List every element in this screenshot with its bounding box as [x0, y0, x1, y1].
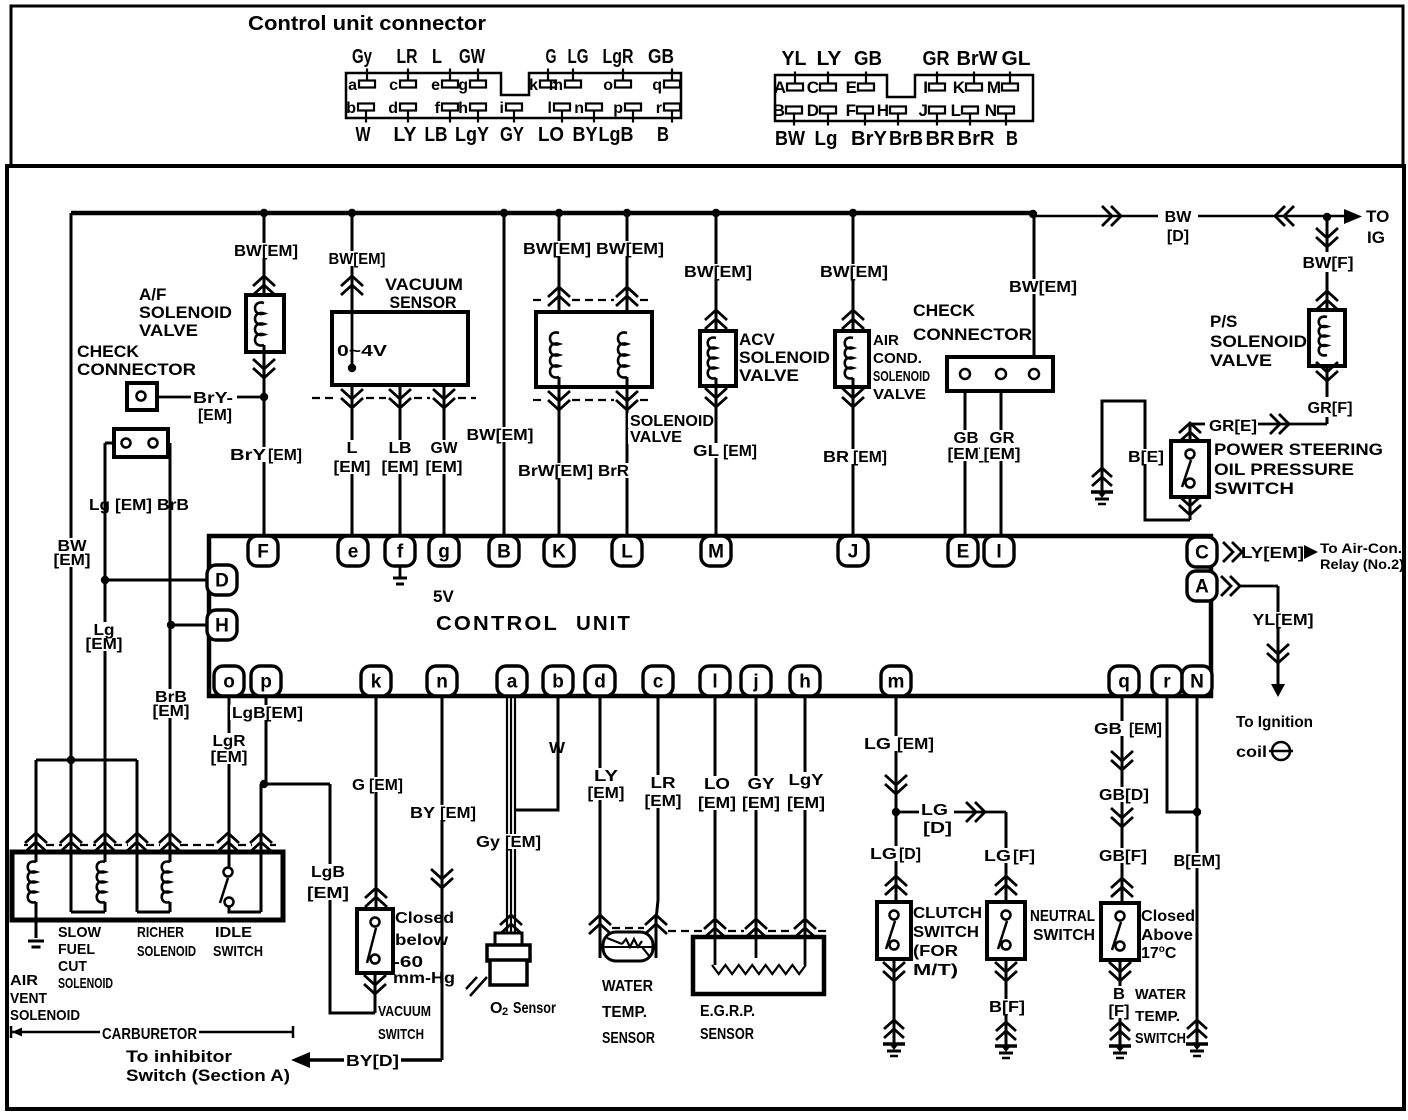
svg-text:SOLENOID: SOLENOID	[139, 303, 232, 322]
pin N connector right	[998, 107, 1014, 114]
pin J control unit	[838, 536, 868, 566]
svg-text:AIR: AIR	[873, 332, 899, 349]
svg-text:RICHER: RICHER	[137, 924, 184, 941]
wire LO[EM] from pin l	[714, 696, 717, 937]
wire BR[EM] to pin J	[852, 378, 855, 537]
ground clutch switch	[884, 1020, 904, 1038]
pin N control unit	[1182, 666, 1212, 696]
svg-text:h: h	[799, 672, 811, 693]
svg-text:E.G.R.P.: E.G.R.P.	[700, 1003, 755, 1020]
svg-text:LB: LB	[389, 440, 412, 457]
wire GW[EM] to pin g	[443, 385, 446, 537]
svg-text:[EM]: [EM]	[723, 443, 757, 460]
EGRP sensor box	[693, 937, 824, 994]
svg-text:F: F	[846, 101, 856, 120]
svg-text:[EM]: [EM]	[853, 449, 887, 466]
svg-text:j: j	[752, 672, 758, 693]
svg-text:LY: LY	[394, 124, 418, 146]
svg-text:r: r	[1163, 672, 1171, 693]
svg-text:BrB: BrB	[889, 128, 923, 150]
wire GY[EM] from pin j	[755, 696, 758, 937]
connector dashes above solenoid valve	[533, 299, 546, 301]
wire BW[EM] to solenoid valve L side	[626, 213, 629, 333]
switch clutch	[885, 876, 907, 895]
svg-text:VACUUM: VACUUM	[378, 1003, 431, 1020]
svg-text:VALVE: VALVE	[630, 429, 682, 446]
connector EM left outline	[346, 73, 681, 118]
svg-text:[EM]: [EM]	[1129, 721, 1162, 738]
svg-text:o: o	[603, 77, 613, 94]
svg-text:BW[EM]: BW[EM]	[329, 251, 386, 268]
solenoid richer coil	[162, 862, 170, 903]
wire L[EM] to pin e	[351, 385, 354, 537]
solenoid valve vacuum control box	[536, 312, 652, 387]
svg-text:SENSOR: SENSOR	[602, 1030, 655, 1047]
svg-text:GR[F]: GR[F]	[1308, 400, 1353, 417]
svg-text:BW[EM]: BW[EM]	[684, 264, 752, 281]
connector dashes carburetor	[24, 844, 28, 846]
wire GB[EM] from pin q	[1121, 696, 1124, 903]
svg-text:VALVE: VALVE	[739, 366, 799, 385]
svg-text:BW: BW	[1165, 209, 1193, 226]
wire LY[EM] from pin d	[599, 696, 602, 934]
svg-text:[EM]: [EM]	[742, 795, 780, 812]
svg-text:I: I	[996, 542, 1001, 563]
ground B[E]	[1092, 468, 1112, 486]
svg-text:p: p	[613, 100, 623, 117]
svg-text:LgB[EM]: LgB[EM]	[232, 705, 303, 722]
svg-text:TEMP.: TEMP.	[1135, 1008, 1180, 1025]
svg-text:L: L	[432, 46, 442, 68]
svg-text:VALVE: VALVE	[1210, 351, 1272, 370]
pin E connector right	[858, 84, 874, 91]
svg-text:GB: GB	[648, 46, 674, 68]
svg-text:LY: LY	[817, 48, 843, 70]
pin a control unit	[497, 666, 527, 696]
wire BW[EM] to vacuum sensor	[351, 213, 354, 312]
svg-text:D: D	[807, 101, 819, 120]
wire LY[EM] to air con relay	[1223, 542, 1242, 562]
svg-text:C: C	[1195, 543, 1209, 564]
wire Gy[EM] O2 sensor cable	[506, 696, 508, 933]
svg-text:m: m	[549, 77, 563, 94]
pin m connector EM	[565, 81, 581, 88]
svg-text:k: k	[371, 672, 382, 693]
svg-text:L: L	[621, 542, 633, 563]
svg-text:SOLENOID: SOLENOID	[873, 368, 930, 385]
svg-text:[EM]: [EM]	[588, 785, 625, 802]
node B[EM] junction	[1193, 808, 1201, 816]
svg-text:B: B	[773, 101, 785, 120]
svg-text:LG: LG	[864, 736, 891, 753]
svg-text:AIR: AIR	[10, 972, 38, 989]
pin l control unit	[700, 666, 730, 696]
svg-text:SOLENOID: SOLENOID	[630, 413, 714, 430]
connector F/D right outline	[775, 75, 1033, 121]
pin h control unit	[790, 666, 820, 696]
wire BrR to pin L	[626, 377, 629, 537]
svg-text:c: c	[653, 672, 664, 693]
svg-text:FUEL: FUEL	[58, 941, 95, 958]
wire BW[EM] to pin B	[503, 213, 506, 537]
pin o control unit	[214, 666, 244, 696]
label LG [D]	[868, 846, 922, 861]
svg-text:LG: LG	[568, 46, 589, 68]
svg-text:LgY: LgY	[789, 772, 824, 789]
wire BY[D]	[310, 1058, 442, 1062]
wire BrW[EM] to pin K	[558, 377, 561, 537]
svg-text:B[EM]: B[EM]	[1174, 853, 1221, 870]
svg-text:SLOW: SLOW	[58, 924, 102, 941]
svg-text:P/S: P/S	[1210, 312, 1237, 331]
pin I connector right	[929, 84, 945, 91]
svg-text:B: B	[657, 124, 669, 146]
svg-text:LB: LB	[425, 124, 448, 146]
svg-text:SENSOR: SENSOR	[390, 293, 457, 312]
wire YL[EM] to ignition coil	[1221, 576, 1240, 596]
svg-text:WATER: WATER	[1135, 986, 1186, 1003]
connector dashes under vacuum sensor	[312, 397, 336, 399]
svg-text:o: o	[223, 672, 235, 693]
svg-text:[EM]: [EM]	[698, 795, 736, 812]
svg-text:D: D	[215, 571, 229, 592]
svg-text:LgY: LgY	[455, 124, 490, 146]
svg-text:M: M	[987, 78, 1001, 97]
wire GB[EM] to pin E	[964, 391, 967, 537]
svg-text:LO: LO	[704, 776, 730, 793]
svg-text:SWITCH: SWITCH	[1135, 1030, 1186, 1047]
svg-text:BW[EM]: BW[EM]	[234, 243, 298, 260]
svg-text:[EM]: [EM]	[984, 446, 1021, 463]
pin F control unit	[248, 536, 278, 566]
svg-text:B[F]: B[F]	[989, 999, 1025, 1016]
wire LgR[EM] to idle switch	[228, 696, 231, 867]
pin k control unit	[361, 666, 391, 696]
svg-text:IDLE: IDLE	[215, 924, 252, 941]
wire BW[EM] to air cond valve	[852, 213, 855, 338]
O2 sensor body	[495, 933, 522, 946]
wire BY[EM] from pin n	[441, 696, 444, 1060]
svg-text:g: g	[438, 542, 450, 563]
svg-text:[EM]: [EM]	[645, 793, 682, 810]
svg-text:LR: LR	[651, 775, 677, 792]
svg-text:LgR: LgR	[603, 46, 634, 68]
pin f connector EM	[442, 104, 458, 111]
wire to pin H	[171, 624, 207, 627]
svg-text:LR: LR	[397, 46, 418, 68]
pin q control unit	[1109, 666, 1139, 696]
wire LG[D] to neutral switch	[896, 811, 919, 814]
wire BrB[EM]	[168, 443, 170, 862]
wire GR[F]	[1326, 366, 1329, 397]
svg-text:COND.: COND.	[873, 350, 922, 367]
pin A control unit	[1187, 571, 1217, 601]
svg-text:h: h	[458, 100, 468, 117]
pin E control unit	[948, 536, 978, 566]
svg-text:BW[F]: BW[F]	[1303, 255, 1354, 272]
svg-text:BW[EM]: BW[EM]	[523, 241, 591, 258]
svg-text:[EM]: [EM]	[115, 497, 152, 514]
pin H connector right	[890, 107, 906, 114]
svg-text:BR: BR	[823, 449, 850, 466]
wire G[EM] to vacuum switch	[375, 696, 378, 909]
svg-text:Above: Above	[1141, 927, 1193, 944]
svg-text:GB: GB	[1094, 721, 1122, 738]
wire LR[EM] from pin c	[656, 696, 658, 934]
ground air vent	[28, 941, 44, 947]
check connector 1-pin	[127, 383, 157, 410]
svg-text:WATER: WATER	[602, 978, 653, 995]
svg-text:[EM]: [EM]	[426, 459, 463, 476]
pin K control unit	[544, 536, 574, 566]
pin b control unit	[543, 666, 573, 696]
svg-text:SOLENOID: SOLENOID	[1210, 332, 1307, 351]
svg-text:BrB: BrB	[157, 497, 189, 514]
svg-text:BrR: BrR	[958, 128, 996, 150]
pin M control unit	[701, 536, 731, 566]
svg-text:CHECK: CHECK	[77, 342, 140, 361]
svg-text:n: n	[574, 100, 584, 117]
svg-text:H: H	[877, 101, 889, 120]
svg-text:l: l	[712, 672, 717, 693]
svg-text:SENSOR: SENSOR	[700, 1026, 754, 1043]
svg-text:To Air-Con.: To Air-Con.	[1320, 540, 1402, 556]
label BW [EM] left	[50, 538, 93, 567]
check connector 3-pin	[947, 357, 1053, 391]
pin B control unit	[489, 536, 519, 566]
svg-text:UNIT: UNIT	[576, 613, 632, 635]
svg-text:r: r	[656, 100, 662, 117]
svg-text:[EM]: [EM]	[440, 805, 476, 822]
wire coil3 return	[137, 911, 170, 914]
svg-text:[EM]: [EM]	[382, 459, 419, 476]
pin I control unit	[984, 536, 1014, 566]
svg-text:CONNECTOR: CONNECTOR	[77, 360, 196, 379]
svg-text:[EM]: [EM]	[948, 446, 985, 463]
wire GL[EM] to pin M	[715, 378, 718, 537]
connector chevrons carburetor	[25, 833, 47, 852]
svg-text:BY: BY	[410, 805, 435, 822]
svg-text:Gy: Gy	[476, 834, 500, 851]
node LG junction	[892, 808, 900, 816]
svg-text:[EM]: [EM]	[307, 885, 349, 902]
solenoid valve A/F	[246, 295, 284, 352]
svg-text:B: B	[1113, 986, 1125, 1003]
svg-text:Closed: Closed	[1141, 908, 1195, 925]
svg-text:CONNECTOR: CONNECTOR	[913, 325, 1032, 344]
svg-text:C: C	[807, 78, 819, 97]
node bus junctions	[260, 209, 268, 217]
svg-text:I: I	[923, 78, 928, 97]
pin a connector EM	[359, 81, 375, 88]
svg-text:CLUTCH: CLUTCH	[913, 905, 982, 922]
switch neutral	[982, 848, 1035, 863]
ground signal under pin f	[399, 566, 402, 578]
svg-text:BY: BY	[573, 124, 599, 146]
wire BW[D] to IG	[1033, 215, 1158, 218]
svg-text:GW: GW	[459, 46, 485, 68]
svg-text:e: e	[431, 77, 440, 94]
svg-text:q: q	[652, 77, 662, 94]
svg-text:To inhibitor: To inhibitor	[126, 1047, 232, 1066]
svg-text:GB: GB	[854, 48, 882, 70]
svg-text:B: B	[1006, 128, 1018, 150]
svg-text:[D]: [D]	[1167, 228, 1189, 245]
svg-text:LG: LG	[984, 848, 1011, 865]
svg-text:M: M	[708, 542, 724, 563]
svg-text:Lg: Lg	[815, 128, 838, 150]
svg-text:A: A	[1195, 577, 1209, 598]
wire LG[EM] from pin m	[895, 696, 898, 902]
vacuum sensor box	[332, 312, 468, 385]
svg-text:mm-Hg: mm-Hg	[393, 970, 455, 987]
svg-text:b: b	[346, 100, 356, 117]
svg-text:Switch (Section A): Switch (Section A)	[126, 1066, 290, 1085]
pin q connector EM	[664, 81, 680, 88]
svg-text:SWITCH: SWITCH	[913, 924, 979, 941]
svg-text:a: a	[507, 672, 518, 693]
pin L control unit	[612, 536, 642, 566]
wire Lg[EM]	[105, 443, 114, 862]
svg-text:SWITCH: SWITCH	[1214, 479, 1294, 498]
svg-text:(FOR: (FOR	[913, 943, 959, 960]
svg-text:GR[E]: GR[E]	[1209, 418, 1257, 435]
svg-text:[F]: [F]	[1109, 1003, 1130, 1020]
wire check connector to bus	[1033, 215, 1036, 357]
svg-text:G: G	[546, 46, 557, 68]
wire GR[E]	[1190, 423, 1205, 426]
control unit box	[209, 536, 1211, 696]
EGRP resistor	[714, 937, 717, 965]
pin i connector EM	[506, 104, 522, 111]
pin g connector EM	[470, 81, 486, 88]
svg-text:GR: GR	[923, 48, 951, 70]
svg-text:LgR: LgR	[213, 733, 246, 750]
svg-text:BrY: BrY	[851, 128, 888, 150]
label BrB [EM] mid	[150, 689, 193, 718]
svg-text:[EM]: [EM]	[334, 459, 371, 476]
pin p connector EM	[625, 104, 641, 111]
check connector 2-pin	[114, 429, 168, 457]
svg-text:f: f	[397, 542, 404, 563]
svg-text:VALVE: VALVE	[139, 321, 198, 340]
svg-text:coil: coil	[1236, 744, 1267, 761]
svg-text:O: O	[490, 1000, 502, 1017]
pin C connector right	[820, 84, 836, 91]
svg-text:LgB: LgB	[311, 864, 345, 881]
svg-text:VENT: VENT	[10, 990, 47, 1007]
label Lg [EM] mid	[82, 622, 125, 651]
svg-text:k: k	[529, 77, 538, 94]
svg-text:SOLENOID: SOLENOID	[137, 943, 196, 960]
pin L connector right	[962, 107, 978, 114]
pin H control unit	[207, 610, 237, 640]
svg-text:VACUUM: VACUUM	[385, 275, 463, 294]
svg-text:Gy: Gy	[352, 46, 373, 68]
pin r control unit	[1152, 666, 1182, 696]
wire to pin D	[105, 579, 207, 582]
svg-text:BY[D]: BY[D]	[346, 1053, 399, 1070]
svg-text:[EM]: [EM]	[787, 795, 825, 812]
solenoid slow fuel cut coil	[97, 862, 105, 903]
svg-text:CARBURETOR: CARBURETOR	[102, 1026, 197, 1043]
ground B[EM]	[1187, 1020, 1207, 1038]
svg-text:BR: BR	[926, 128, 956, 150]
svg-text:[EM]: [EM]	[86, 636, 123, 653]
svg-text:K: K	[953, 78, 966, 97]
svg-text:H: H	[215, 616, 229, 637]
svg-text:K: K	[552, 542, 566, 563]
pin d control unit	[585, 666, 615, 696]
solenoid valve P/S	[1309, 310, 1345, 366]
svg-text:YL[EM]: YL[EM]	[1253, 612, 1314, 629]
solenoid air vent coil	[28, 862, 36, 903]
node LgB junction	[260, 780, 268, 788]
svg-text:TEMP.: TEMP.	[602, 1004, 647, 1021]
svg-text:5V: 5V	[433, 587, 454, 606]
svg-text:LG: LG	[921, 802, 948, 819]
node BrY junction	[260, 393, 268, 401]
pin l connector EM	[554, 104, 570, 111]
svg-text:GY: GY	[500, 124, 525, 146]
solenoid valve ACV	[700, 331, 736, 386]
svg-text:BrW[EM]: BrW[EM]	[518, 463, 593, 480]
carburetor box	[12, 852, 283, 920]
svg-text:J: J	[919, 101, 928, 120]
svg-text:BW[EM]: BW[EM]	[596, 241, 664, 258]
pin c control unit	[643, 666, 673, 696]
pin g control unit	[429, 536, 459, 566]
svg-text:E: E	[957, 542, 970, 563]
svg-text:BrR: BrR	[598, 463, 629, 480]
wire LgB to vacuum switch	[330, 784, 375, 1013]
svg-text:SOLENOID: SOLENOID	[58, 975, 113, 992]
svg-text:NEUTRAL: NEUTRAL	[1030, 908, 1095, 925]
svg-text:ACV: ACV	[739, 330, 776, 349]
svg-text:M/T): M/T)	[913, 962, 958, 979]
pin C control unit	[1187, 537, 1217, 567]
pin D connector right	[820, 107, 836, 114]
svg-text:To Ignition: To Ignition	[1236, 714, 1313, 731]
svg-text:-60: -60	[393, 954, 423, 971]
svg-text:GB[F]: GB[F]	[1099, 848, 1147, 865]
svg-text:F: F	[257, 542, 269, 563]
svg-text:OIL PRESSURE: OIL PRESSURE	[1214, 460, 1354, 479]
dimension line CARBURETOR	[11, 1026, 293, 1038]
svg-text:d: d	[388, 100, 398, 117]
svg-text:GY: GY	[748, 776, 775, 793]
wire BW[EM] to solenoid valve K side	[558, 213, 561, 333]
wire BrY-[EM]	[157, 396, 191, 399]
svg-text:d: d	[594, 672, 606, 693]
node BW[F] junction	[1323, 213, 1331, 221]
svg-text:Lg: Lg	[89, 497, 110, 514]
svg-text:POWER STEERING: POWER STEERING	[1214, 440, 1383, 459]
svg-text:[EM]: [EM]	[198, 407, 232, 424]
pin k connector EM	[540, 81, 556, 88]
svg-text:Relay (No.2): Relay (No.2)	[1320, 556, 1404, 572]
svg-text:Sensor: Sensor	[513, 1000, 556, 1017]
svg-text:[EM]: [EM]	[268, 447, 302, 464]
svg-text:W: W	[549, 740, 566, 757]
pin m control unit	[881, 666, 911, 696]
svg-text:BW[EM]: BW[EM]	[820, 264, 888, 281]
pin r connector EM	[664, 104, 680, 111]
pin A connector right	[787, 84, 803, 91]
pin e connector EM	[442, 81, 458, 88]
wire B[E]	[1189, 497, 1192, 520]
svg-text:CHECK: CHECK	[913, 301, 976, 320]
